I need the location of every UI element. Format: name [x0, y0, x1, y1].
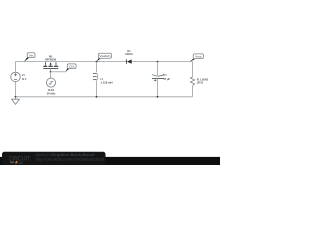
- clock source CLK1: [46, 78, 55, 87]
- ground: [12, 96, 20, 105]
- capacitor C1: [152, 62, 164, 97]
- transistor M1 (PMOS IRF9530): [43, 62, 58, 72]
- svg-text:IRF9530: IRF9530: [45, 57, 56, 61]
- svg-text:LAB: LAB: [18, 161, 23, 165]
- flag Vswitch: [96, 53, 111, 62]
- svg-text:10 V: 10 V: [22, 77, 27, 81]
- svg-text:10 kHz: 10 kHz: [47, 91, 56, 95]
- inductor L1: [93, 62, 98, 97]
- node inductor bottom junction: [96, 96, 98, 98]
- wire right load branch: [192, 62, 194, 97]
- flag Vin: [24, 53, 35, 62]
- node cap bottom junction: [157, 96, 159, 98]
- CircuitLab logo: [9, 156, 31, 165]
- svg-text:CLK: CLK: [69, 65, 75, 69]
- wire gate to CLK flag: [51, 71, 66, 73]
- node gate junction: [50, 71, 52, 73]
- svg-text:1.118 mH: 1.118 mH: [100, 80, 112, 84]
- footer watermark box: [2, 152, 106, 165]
- svg-text:1N4001: 1N4001: [125, 52, 133, 56]
- wire top rail left segment: [16, 61, 127, 63]
- voltage source V1: [11, 72, 21, 82]
- footer strip: [0, 157, 220, 165]
- svg-text:47 µF: 47 µF: [163, 77, 170, 81]
- flag CLK: [65, 64, 76, 72]
- wire top rail right segment: [132, 61, 193, 63]
- svg-text:100 Ω: 100 Ω: [197, 81, 204, 85]
- resistor R_LOAD: [190, 77, 194, 86]
- node switch junction: [96, 61, 98, 63]
- svg-text:Vswitch: Vswitch: [99, 54, 111, 58]
- svg-text:Vin: Vin: [29, 54, 34, 58]
- svg-text:http://circuitlab.com/c/7kds8n: http://circuitlab.com/c/7kds8nuk33s35: [36, 158, 105, 162]
- svg-text:Vout: Vout: [195, 55, 202, 59]
- svg-text:Negative Buck-Boost: Negative Buck-Boost: [51, 153, 96, 157]
- flag Vout: [190, 54, 204, 62]
- wire V1 bottom lead: [15, 82, 17, 97]
- wire V1 top lead: [15, 61, 17, 72]
- node cap top junction: [157, 61, 159, 63]
- wire gate to clock source: [50, 72, 52, 78]
- svg-text:fighter12 /: fighter12 /: [36, 153, 51, 157]
- diode D1: [126, 59, 131, 63]
- wire bottom rail: [16, 96, 193, 98]
